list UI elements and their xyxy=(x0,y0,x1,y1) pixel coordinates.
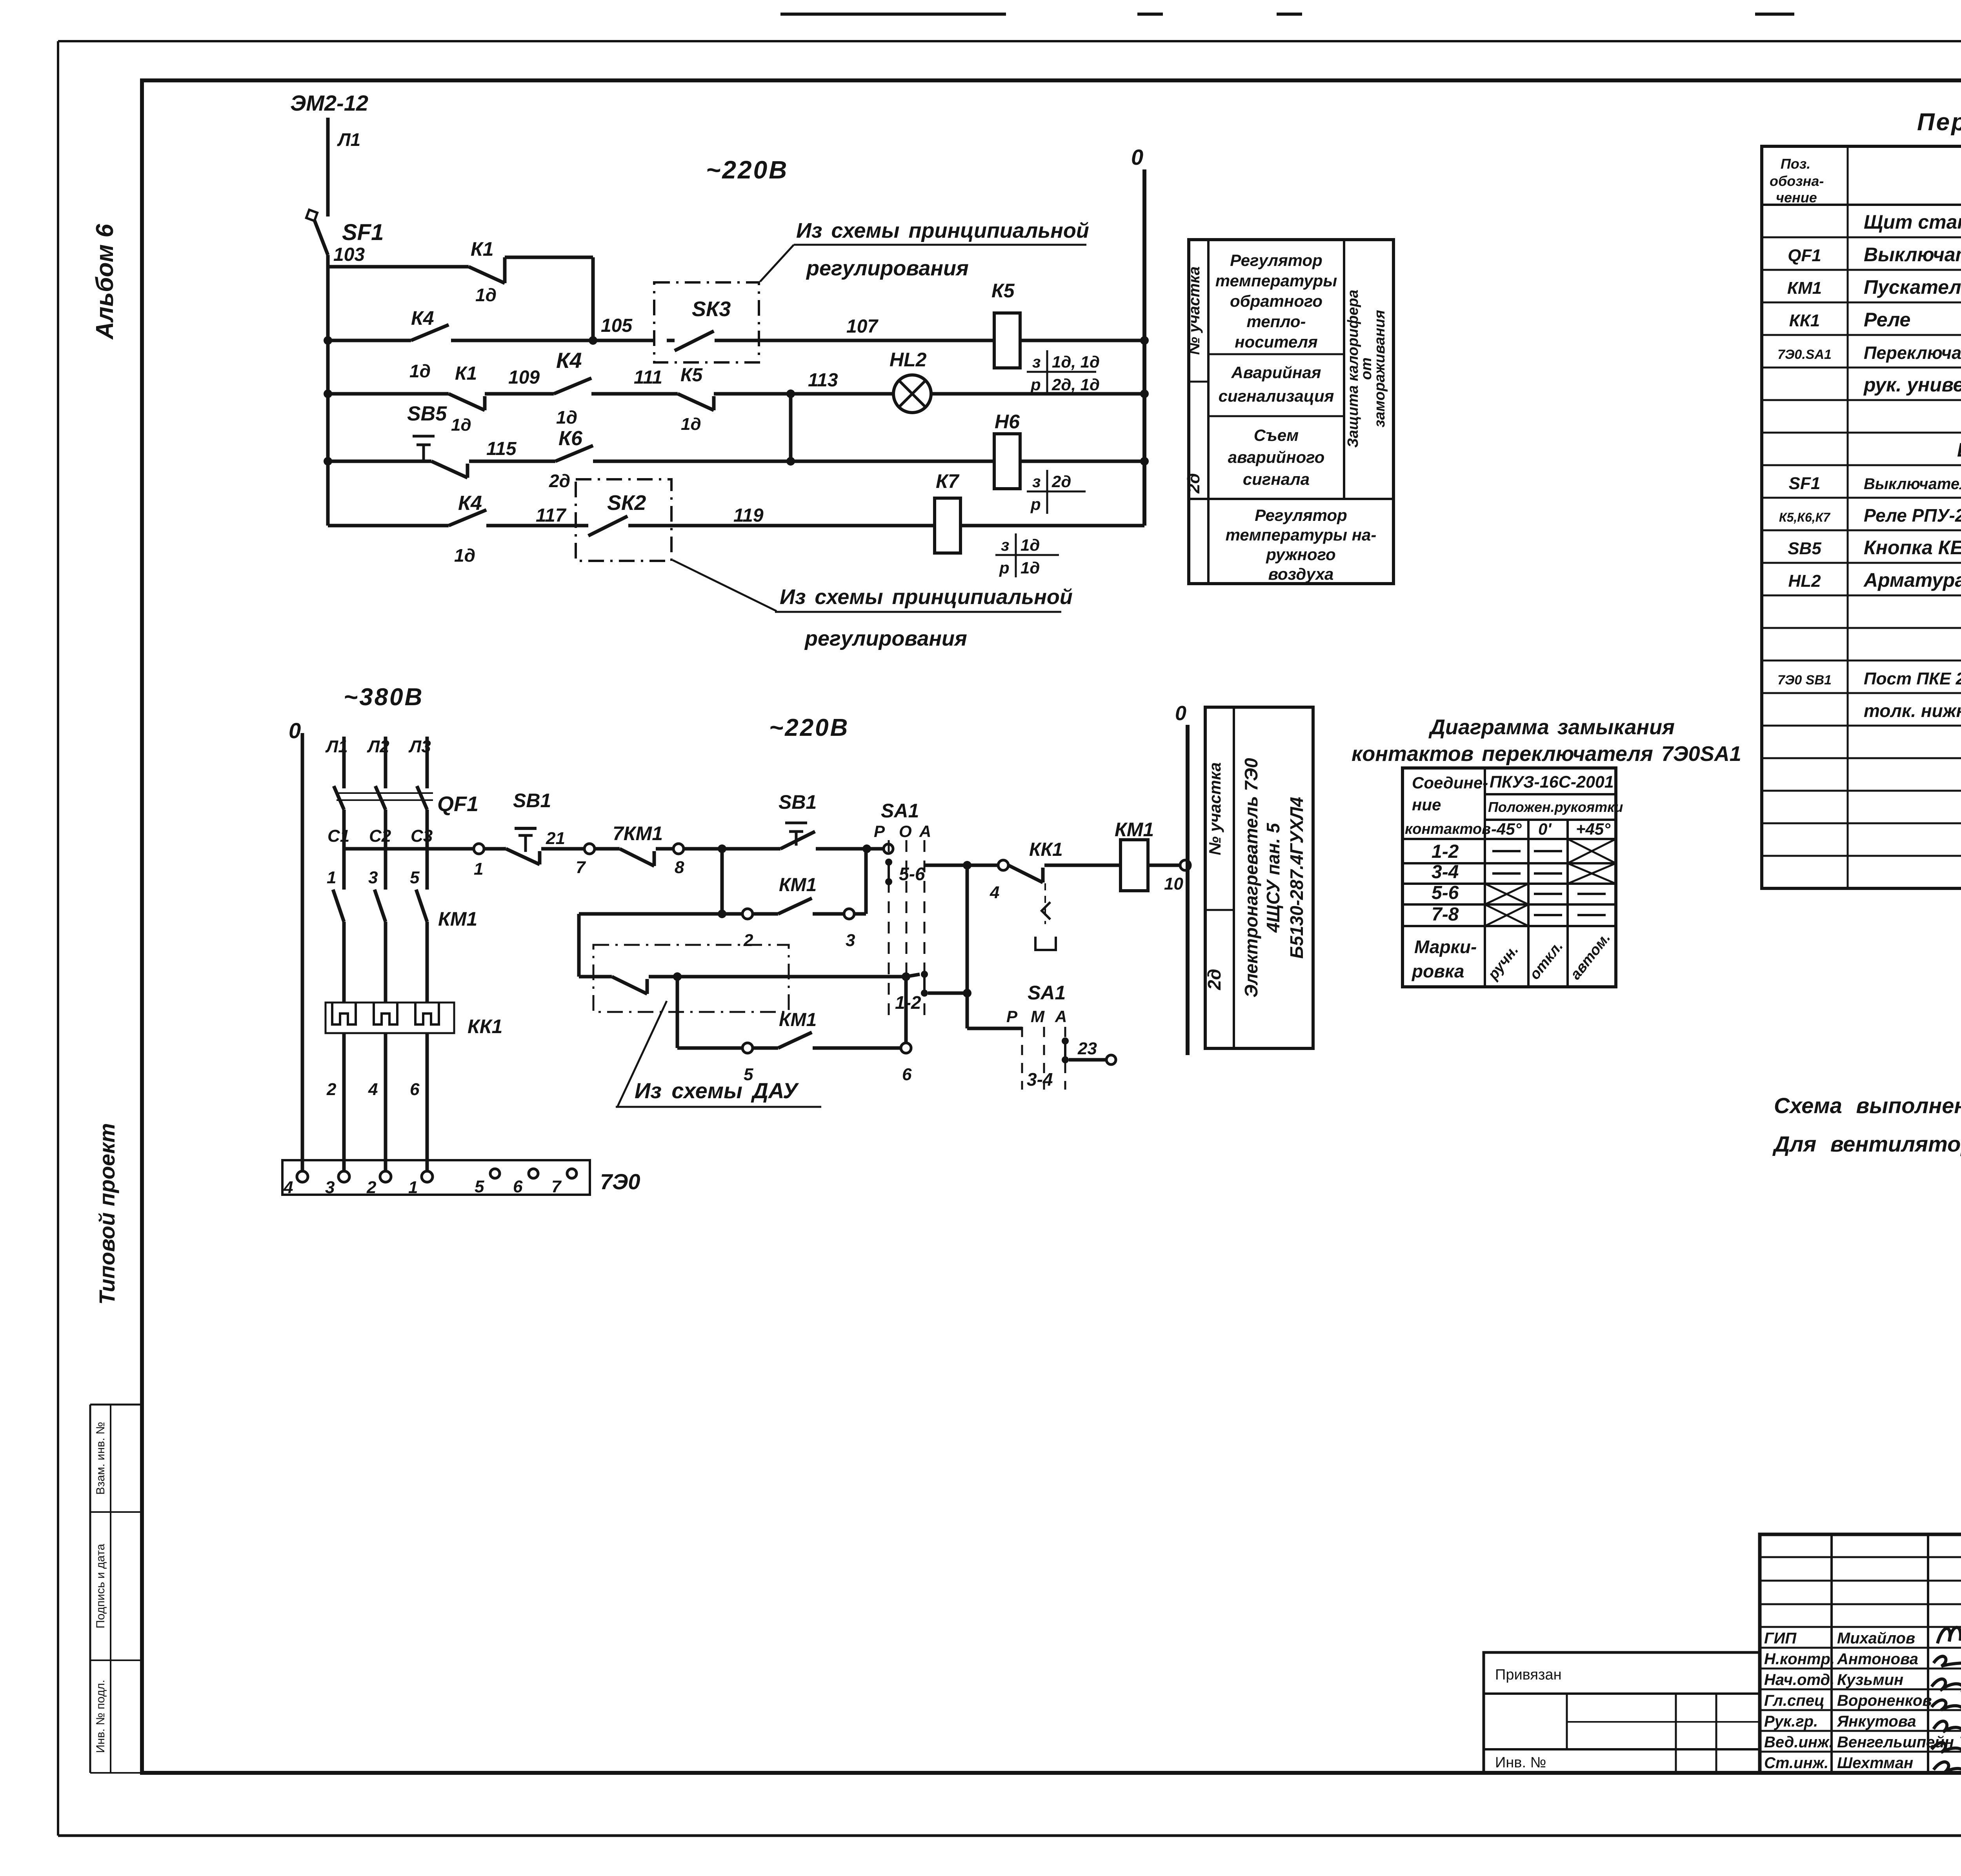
svg-text:2д: 2д xyxy=(1204,969,1224,990)
svg-text:з: з xyxy=(1032,353,1041,371)
svg-text:113: 113 xyxy=(808,370,838,391)
svg-text:Из схемы принципиальной: Из схемы принципиальной xyxy=(780,585,1073,609)
svg-text:Подпись и дата: Подпись и дата xyxy=(94,1544,107,1629)
svg-text:6: 6 xyxy=(410,1080,420,1099)
svg-text:Регулятор: Регулятор xyxy=(1255,506,1347,524)
svg-text:1: 1 xyxy=(327,868,336,887)
svg-text:рук. универсал.: рук. универсал. xyxy=(1863,374,1961,396)
svg-text:111: 111 xyxy=(634,367,662,388)
svg-text:Реле: Реле xyxy=(1864,309,1910,331)
svg-text:толк. нижн. красный 1з, 1р: толк. нижн. красный 1з, 1р xyxy=(1864,701,1961,721)
svg-text:К1: К1 xyxy=(455,363,477,384)
svg-text:С3: С3 xyxy=(411,826,433,846)
svg-text:К1: К1 xyxy=(471,238,494,260)
svg-text:SF1: SF1 xyxy=(1789,474,1821,493)
svg-text:чение: чение xyxy=(1776,189,1817,206)
svg-text:К4: К4 xyxy=(458,492,482,515)
svg-text:А: А xyxy=(919,822,931,841)
svg-text:0: 0 xyxy=(289,718,301,743)
svg-text:1д: 1д xyxy=(409,361,431,381)
svg-text:3-4: 3-4 xyxy=(1027,1069,1053,1090)
svg-text:2д: 2д xyxy=(1051,472,1071,491)
svg-text:Привязан: Привязан xyxy=(1495,1667,1562,1683)
svg-text:автом.: автом. xyxy=(1567,930,1614,983)
svg-text:Пост ПКЕ 222-2У2 толк. верхн.: Пост ПКЕ 222-2У2 толк. верхн. 1з , 1р xyxy=(1864,669,1961,688)
svg-text:3: 3 xyxy=(325,1178,335,1197)
svg-text:Гл.спец: Гл.спец xyxy=(1764,1692,1825,1709)
svg-text:Р: Р xyxy=(874,822,885,841)
svg-text:КМ1: КМ1 xyxy=(1787,278,1822,298)
svg-text:103: 103 xyxy=(333,244,365,265)
svg-text:Аварийная: Аварийная xyxy=(1231,363,1321,382)
svg-text:117: 117 xyxy=(536,505,567,526)
svg-text:Реле РПУ-2-36220 УЗБ, U~220В: Реле РПУ-2-36220 УЗБ, U~220В xyxy=(1864,505,1961,526)
svg-text:1д: 1д xyxy=(454,545,475,566)
svg-text:1: 1 xyxy=(474,859,483,879)
svg-text:Из схемы принципиальной: Из схемы принципиальной xyxy=(796,219,1089,242)
svg-text:Съем: Съем xyxy=(1254,426,1299,444)
svg-text:регулирования: регулирования xyxy=(806,257,969,280)
svg-text:Шкаф автоматизации: Шкаф автоматизации xyxy=(1957,439,1961,461)
svg-text:Взам. инв. №: Взам. инв. № xyxy=(94,1422,107,1495)
svg-text:4: 4 xyxy=(990,883,999,902)
svg-text:Альбом 6: Альбом 6 xyxy=(91,224,118,340)
svg-text:Нач.отд.: Нач.отд. xyxy=(1764,1671,1834,1689)
svg-text:К4: К4 xyxy=(411,307,434,329)
svg-text:Л1: Л1 xyxy=(337,129,360,150)
svg-text:Ст.инж.: Ст.инж. xyxy=(1764,1754,1828,1772)
svg-text:~220В: ~220В xyxy=(769,714,849,741)
svg-text:КМ1: КМ1 xyxy=(779,875,817,895)
svg-text:р: р xyxy=(1030,375,1041,394)
svg-text:105: 105 xyxy=(601,315,633,336)
svg-text:Электронагреватель 7Э0: Электронагреватель 7Э0 xyxy=(1241,758,1261,997)
svg-text:сигнализация: сигнализация xyxy=(1219,387,1334,405)
svg-text:Н6: Н6 xyxy=(995,411,1020,433)
svg-text:SF1: SF1 xyxy=(342,220,384,245)
svg-text:ручн.: ручн. xyxy=(1484,942,1522,983)
svg-text:10: 10 xyxy=(1164,874,1183,893)
svg-text:4: 4 xyxy=(283,1178,293,1197)
svg-text:QF1: QF1 xyxy=(1788,246,1821,265)
svg-text:Михайлов: Михайлов xyxy=(1837,1630,1915,1647)
svg-text:К6: К6 xyxy=(558,427,583,450)
svg-text:2д: 2д xyxy=(1184,473,1203,494)
svg-text:Вед.инж.: Вед.инж. xyxy=(1764,1734,1834,1751)
svg-text:КК1: КК1 xyxy=(1029,839,1063,860)
svg-text:Арматура АМЕ 321221У2 , U~220: Арматура АМЕ 321221У2 , U~220В xyxy=(1863,569,1961,591)
svg-text:SА1: SА1 xyxy=(1028,982,1066,1004)
svg-text:0': 0' xyxy=(1538,820,1552,838)
svg-text:1д: 1д xyxy=(475,285,497,305)
svg-text:№ участка: № участка xyxy=(1206,762,1224,855)
svg-text:Регулятор: Регулятор xyxy=(1230,251,1322,269)
svg-text:К7: К7 xyxy=(936,470,960,492)
svg-text:Перечень: Перечень xyxy=(1917,109,1961,136)
svg-text:6: 6 xyxy=(902,1065,912,1084)
svg-text:5: 5 xyxy=(475,1177,484,1196)
svg-text:1-2: 1-2 xyxy=(1432,841,1459,862)
svg-text:7: 7 xyxy=(576,858,586,877)
svg-text:С1: С1 xyxy=(327,826,349,846)
svg-text:21: 21 xyxy=(546,829,565,848)
svg-text:7-8: 7-8 xyxy=(1432,904,1459,925)
svg-text:Антонова: Антонова xyxy=(1837,1650,1918,1668)
svg-text:ПКУЗ-16С-2001: ПКУЗ-16С-2001 xyxy=(1490,773,1614,792)
svg-text:Диаграмма замыкания: Диаграмма замыкания xyxy=(1428,715,1675,739)
svg-text:2: 2 xyxy=(326,1080,337,1099)
svg-text:НL2: НL2 xyxy=(1788,571,1821,591)
svg-text:Из схемы ДАУ: Из схемы ДАУ xyxy=(635,1078,799,1103)
svg-text:0: 0 xyxy=(1131,145,1143,169)
svg-text:1д: 1д xyxy=(556,407,577,428)
svg-text:1: 1 xyxy=(408,1178,418,1197)
svg-text:Рук.гр.: Рук.гр. xyxy=(1764,1713,1818,1730)
svg-text:7Э0: 7Э0 xyxy=(600,1169,640,1194)
svg-text:SВ5: SВ5 xyxy=(1788,539,1821,558)
svg-text:КМ1: КМ1 xyxy=(1115,819,1154,841)
svg-text:регулирования: регулирования xyxy=(804,627,967,650)
svg-text:1д: 1д xyxy=(681,415,701,434)
svg-text:ГИП: ГИП xyxy=(1764,1630,1797,1647)
svg-text:№ участка: № участка xyxy=(1186,266,1203,355)
svg-text:7КМ1: 7КМ1 xyxy=(613,822,663,844)
svg-text:Переключатель ПКУЗ-16СУЗ схе: Переключатель ПКУЗ-16СУЗ схема 2001 xyxy=(1864,343,1961,363)
svg-text:С2: С2 xyxy=(369,826,391,846)
svg-text:+45°: +45° xyxy=(1576,820,1611,838)
svg-text:SК3: SК3 xyxy=(692,297,731,321)
svg-text:температуры: температуры xyxy=(1215,271,1337,290)
svg-text:3: 3 xyxy=(846,931,855,950)
svg-text:5: 5 xyxy=(410,868,420,887)
svg-text:ровка: ровка xyxy=(1411,961,1464,981)
svg-text:обратного: обратного xyxy=(1230,292,1322,310)
svg-text:109: 109 xyxy=(508,367,540,388)
svg-text:Инв. № подл.: Инв. № подл. xyxy=(94,1680,107,1753)
svg-text:замораживания: замораживания xyxy=(1372,310,1388,428)
svg-text:3-4: 3-4 xyxy=(1432,862,1459,883)
svg-text:Схема выполнена для приточн: Схема выполнена для приточного вентилято… xyxy=(1774,1093,1961,1118)
svg-text:Венгельшпейн: Венгельшпейн xyxy=(1837,1734,1954,1751)
svg-text:5-6: 5-6 xyxy=(1432,883,1459,903)
svg-text:Р: Р xyxy=(1006,1007,1018,1026)
svg-text:SВ5: SВ5 xyxy=(407,402,447,425)
svg-text:НL2: НL2 xyxy=(890,349,927,371)
svg-text:Поз.: Поз. xyxy=(1781,156,1810,172)
svg-text:SВ1: SВ1 xyxy=(513,790,551,812)
svg-text:К5: К5 xyxy=(680,365,703,386)
svg-text:QF1: QF1 xyxy=(437,792,478,816)
svg-text:5-6: 5-6 xyxy=(899,864,925,884)
svg-text:~220В: ~220В xyxy=(706,156,788,184)
svg-text:К4: К4 xyxy=(556,348,582,373)
svg-text:з: з xyxy=(1001,536,1009,554)
svg-text:2: 2 xyxy=(366,1178,377,1197)
svg-text:з: з xyxy=(1032,472,1041,491)
svg-text:Пускатель: Пускатель xyxy=(1864,276,1961,298)
svg-text:А: А xyxy=(1055,1007,1067,1026)
svg-text:ружного: ружного xyxy=(1266,545,1335,564)
svg-text:Б5130-287.4ГУХЛ4: Б5130-287.4ГУХЛ4 xyxy=(1286,797,1307,959)
svg-text:1д: 1д xyxy=(451,415,471,435)
svg-text:К5,К6,К7: К5,К6,К7 xyxy=(1779,510,1831,524)
svg-text:КК1: КК1 xyxy=(1789,311,1820,330)
svg-text:1д, 1д: 1д, 1д xyxy=(1052,353,1100,371)
svg-text:Кузьмин: Кузьмин xyxy=(1837,1671,1903,1689)
svg-text:контактов переключателя 7Э0S: контактов переключателя 7Э0SА1 xyxy=(1352,742,1741,766)
svg-text:Марки-: Марки- xyxy=(1414,937,1477,957)
svg-text:р: р xyxy=(1030,495,1041,513)
svg-text:температуры на-: температуры на- xyxy=(1226,526,1377,544)
svg-text:аварийного: аварийного xyxy=(1228,448,1325,466)
svg-text:0: 0 xyxy=(1175,702,1186,725)
svg-text:Шехтман: Шехтман xyxy=(1837,1754,1913,1772)
svg-text:сигнала: сигнала xyxy=(1243,470,1310,488)
svg-text:Для вентилятора 8 схема а: Для вентилятора 8 схема аналогична . xyxy=(1772,1132,1961,1156)
svg-text:КМ1: КМ1 xyxy=(438,908,477,930)
svg-text:7Э0.SА1: 7Э0.SА1 xyxy=(1777,347,1832,362)
svg-text:М: М xyxy=(1031,1007,1045,1026)
svg-text:119: 119 xyxy=(733,505,764,526)
svg-text:7Э0 SВ1: 7Э0 SВ1 xyxy=(1777,673,1832,688)
svg-text:ние: ние xyxy=(1412,795,1441,814)
svg-text:контактов: контактов xyxy=(1405,821,1491,837)
svg-text:7: 7 xyxy=(551,1177,562,1196)
svg-text:Кнопка КЕ 011УЗ исп.4: Кнопка КЕ 011УЗ исп.4 xyxy=(1864,537,1961,559)
svg-text:2д: 2д xyxy=(549,471,570,491)
svg-text:Щит станций управления 4ЩСУ: Щит станций управления 4ЩСУ xyxy=(1864,211,1961,233)
svg-text:2: 2 xyxy=(743,931,753,950)
svg-text:носителя: носителя xyxy=(1235,333,1318,351)
svg-text:откл.: откл. xyxy=(1526,938,1566,983)
svg-text:Положен.рукоятки: Положен.рукоятки xyxy=(1488,799,1623,815)
svg-text:тепло-: тепло- xyxy=(1246,312,1306,331)
svg-text:SВ1: SВ1 xyxy=(779,791,817,813)
svg-text:115: 115 xyxy=(486,439,517,459)
svg-text:SК2: SК2 xyxy=(607,491,646,515)
svg-text:107: 107 xyxy=(846,316,879,337)
svg-text:Соедине-: Соедине- xyxy=(1412,773,1488,792)
svg-text:Н.контр.: Н.контр. xyxy=(1764,1650,1835,1668)
svg-text:обозна-: обозна- xyxy=(1770,173,1824,189)
svg-text:КМ1: КМ1 xyxy=(779,1010,817,1030)
svg-text:23: 23 xyxy=(1077,1039,1097,1058)
svg-text:6: 6 xyxy=(513,1177,523,1196)
svg-text:4: 4 xyxy=(368,1080,378,1099)
svg-text:Инв. №: Инв. № xyxy=(1495,1754,1546,1771)
svg-text:Типовой проект: Типовой проект xyxy=(95,1123,119,1305)
svg-text:Выключатель. А63-М, Эрасц.-1А,: Выключатель. А63-М, Эрасц.-1А, Эотс=1.5Э… xyxy=(1864,475,1961,493)
svg-text:Вороненков: Вороненков xyxy=(1837,1692,1932,1709)
svg-text:1д: 1д xyxy=(1021,559,1040,577)
svg-text:1-2: 1-2 xyxy=(895,992,921,1013)
svg-text:2д, 1д: 2д, 1д xyxy=(1051,375,1100,394)
svg-text:р: р xyxy=(999,559,1010,577)
svg-text:воздуха: воздуха xyxy=(1268,565,1334,583)
svg-text:К5: К5 xyxy=(991,280,1015,302)
svg-text:3: 3 xyxy=(368,868,378,887)
svg-text:4ЩСУ пан. 5: 4ЩСУ пан. 5 xyxy=(1263,822,1283,933)
svg-text:КК1: КК1 xyxy=(468,1015,502,1037)
svg-text:О: О xyxy=(899,822,912,841)
svg-text:~380В: ~380В xyxy=(344,684,424,711)
svg-text:1д: 1д xyxy=(1021,536,1040,554)
svg-text:8: 8 xyxy=(675,858,684,877)
svg-text:Янкутова: Янкутова xyxy=(1837,1713,1916,1730)
svg-text:-45°: -45° xyxy=(1491,820,1522,838)
svg-text:ЭМ2-12: ЭМ2-12 xyxy=(290,91,368,115)
svg-text:Выключатель: Выключатель xyxy=(1864,244,1961,266)
svg-text:SА1: SА1 xyxy=(881,800,919,822)
